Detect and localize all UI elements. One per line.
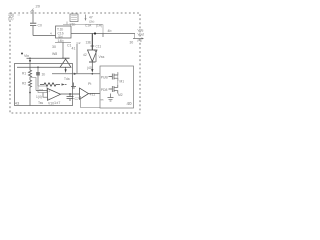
- svg-text:40: 40: [127, 101, 133, 106]
- svg-text:M1: M1: [120, 80, 125, 84]
- text right of arrow: [89, 16, 94, 24]
- svg-text:Y1b: Y1b: [70, 23, 76, 27]
- R2 label: [22, 82, 26, 86]
- ground under M2: [108, 94, 114, 102]
- svg-text:C7: C7: [75, 97, 80, 101]
- tick junction: [102, 34, 104, 38]
- svg-text:W8: W8: [52, 52, 57, 56]
- arrow from Vin wire into box 43: [29, 58, 31, 60]
- junction dot on rail: [94, 32, 96, 34]
- text left of ground: [101, 98, 105, 102]
- text row under Vref box: [36, 95, 42, 99]
- op-amp U1: [48, 89, 61, 101]
- svg-text:(11): (11): [8, 17, 13, 21]
- svg-text:Po: Po: [138, 39, 142, 43]
- diode D3 small: [36, 72, 40, 76]
- svg-text:ss: ss: [101, 98, 105, 102]
- current source arrow symbol: [85, 15, 87, 20]
- svg-text:PUB: PUB: [101, 76, 109, 80]
- diode D2 cathode bar: [89, 61, 96, 63]
- svg-text:Vrf: Vrf: [39, 88, 43, 92]
- vertical bus right of rectifier: [76, 44, 78, 73]
- capacitor C0 label: [38, 23, 42, 27]
- arrowhead on R2 wire: [62, 83, 66, 85]
- small cap mark on wire: [91, 45, 95, 47]
- text near wire: [77, 41, 102, 49]
- svg-text:C11: C11: [96, 45, 102, 49]
- pad text block (140): [8, 13, 14, 20]
- svg-text:+: +: [48, 90, 50, 94]
- svg-text:Vout: Vout: [138, 32, 145, 36]
- svg-text:4b: 4b: [108, 29, 112, 33]
- Vss text: [99, 55, 105, 59]
- svg-text:PD8: PD8: [101, 88, 108, 92]
- text under oscillator box: [70, 23, 76, 27]
- node: divider junction dot: [29, 92, 31, 94]
- anode wire into D1: [17, 66, 60, 68]
- tiny label on input wire: [50, 31, 52, 35]
- block 41 box: [56, 26, 72, 38]
- svg-text:43: 43: [15, 100, 20, 105]
- lower-left box 43: [15, 64, 73, 106]
- junction on Vin wire: [29, 57, 31, 59]
- M1 label: [120, 80, 125, 84]
- main rail VDD: [71, 33, 135, 35]
- Vin label: [24, 54, 29, 58]
- svg-text:41: 41: [72, 47, 76, 51]
- label under D2: [87, 66, 93, 70]
- resistor R2 (lower divider zigzag): [28, 80, 31, 106]
- labels left of D1 feed: [52, 45, 57, 56]
- svg-text:411: 411: [90, 93, 96, 97]
- svg-text:(1A): (1A): [96, 23, 102, 27]
- wire Vin horizontal: [27, 57, 63, 59]
- PU text above: [88, 82, 91, 86]
- svg-text:R1: R1: [22, 72, 26, 76]
- svg-text:C1A: C1A: [85, 23, 92, 27]
- wire D2 to bottom rail with arrowhead: [91, 62, 93, 70]
- small hatched box (oscillator): [70, 14, 78, 22]
- node A: antenna input wire: [32, 10, 34, 23]
- C3 label: [75, 97, 80, 101]
- net stub above box 40: [94, 50, 96, 63]
- Vout exit wire: [133, 38, 142, 40]
- wire rail to Vout: [134, 34, 136, 39]
- U1 label: [54, 101, 60, 105]
- reference label 20 leader line: [31, 9, 34, 13]
- buffer U2: [80, 88, 89, 99]
- svg-text:13E: 13E: [86, 41, 92, 45]
- svg-text:42: 42: [83, 53, 87, 57]
- svg-text:Pt: Pt: [88, 82, 91, 86]
- capacitor C3: [67, 94, 74, 101]
- svg-text:1±7: 1±7: [54, 101, 60, 105]
- svg-text:Vin: Vin: [24, 54, 29, 58]
- R1 label: [22, 72, 26, 76]
- wire into block 41: [33, 35, 56, 37]
- arrow from D1 down to bottom wire: [65, 67, 67, 70]
- transistor M1: [109, 72, 118, 81]
- texts at bottom of box 43: [38, 101, 54, 106]
- junction dot on output: [69, 93, 71, 95]
- pad stub wire: [18, 14, 21, 16]
- label 40: [127, 101, 133, 106]
- M2 label: [118, 93, 123, 97]
- label 43: [15, 100, 20, 105]
- svg-text:C0: C0: [38, 23, 42, 27]
- arrowhead on bottom wire: [74, 73, 77, 75]
- svg-text:1b: 1b: [42, 73, 46, 77]
- ground return wire: [81, 96, 101, 108]
- svg-text:Tda: Tda: [64, 77, 70, 81]
- wire tap down: [37, 67, 39, 72]
- label under block 41: [58, 39, 64, 43]
- label 30 near right edge: [130, 41, 134, 45]
- U1 +/-: [48, 90, 50, 101]
- resistor R2 (horizontal zigzag): [40, 83, 60, 86]
- svg-text:M2: M2: [118, 93, 123, 97]
- U1 output wire: [61, 93, 80, 95]
- small text near top of bus: [67, 44, 75, 51]
- junction dot: [92, 73, 94, 75]
- transistor M2: [109, 85, 118, 94]
- wire D3 down to Vref box: [37, 76, 39, 87]
- svg-text:R2: R2: [22, 82, 26, 86]
- diode D2 (pointing down): [88, 50, 98, 62]
- Vref box: [38, 86, 47, 93]
- Vout text block: [138, 29, 145, 44]
- resistor R1 (upper divider zigzag): [28, 63, 31, 80]
- text C1A: [85, 23, 102, 27]
- block 41 inner text: [57, 28, 64, 39]
- node: anode wire junction dot: [37, 66, 39, 68]
- connector between rails: [102, 25, 104, 34]
- diode D1 (pointing up) cathode bar: [62, 57, 70, 59]
- svg-text:Tss: Tss: [38, 101, 43, 105]
- U1 input stubs: [36, 91, 48, 98]
- outer dashed enclosure box 20: [10, 13, 140, 113]
- power rail upper: [63, 24, 103, 26]
- tick on rail: [66, 22, 68, 25]
- reference numeral 20: [36, 4, 41, 9]
- svg-text:(1b): (1b): [58, 35, 63, 39]
- ground symbol: [71, 83, 76, 89]
- Vref box text: [39, 88, 43, 92]
- U2 output wire: [89, 93, 101, 95]
- bottom connection wire: [52, 73, 100, 75]
- svg-text:30: 30: [130, 41, 134, 45]
- wire divider tap: [31, 78, 36, 91]
- drain bus in box 40: [117, 72, 119, 85]
- D3 label: [42, 73, 46, 77]
- diode D1 triangle: [60, 59, 71, 67]
- D2 labels: [83, 53, 87, 57]
- svg-text:1(4): 1(4): [36, 95, 42, 99]
- PUB gate text: [101, 76, 109, 80]
- text above resistor wire: [64, 77, 70, 81]
- wire under block 41: [55, 41, 71, 43]
- wire from rail down to diode D2: [91, 34, 93, 51]
- svg-text:30: 30: [52, 45, 56, 49]
- U2 label: [90, 93, 96, 97]
- wire from block 41 down to D1: [62, 42, 64, 58]
- wire from C0 down: [32, 26, 34, 36]
- PD gate text: [101, 88, 108, 92]
- svg-text:20: 20: [36, 4, 41, 9]
- svg-text:Vss: Vss: [99, 55, 105, 59]
- dark mark left: [21, 53, 23, 55]
- label 4b above rail: [108, 29, 112, 33]
- capacitor C0: [30, 23, 36, 25]
- output driver box 40: [100, 66, 134, 108]
